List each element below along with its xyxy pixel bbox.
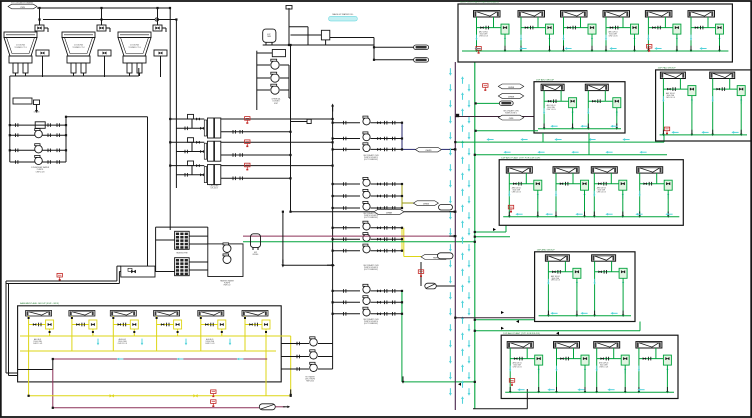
wire vertical x176 chiller feed — [175, 20, 177, 189]
wire box B drops — [542, 133, 544, 142]
wire group2 outlet — [401, 184, 403, 203]
wire PHE to pump box rows — [189, 235, 208, 237]
wire chiller CH-2 outlet top — [221, 141, 333, 143]
condenser water pump y150.3 — [35, 144, 43, 153]
wire vertical x170 chiller feed — [169, 8, 171, 230]
AHU 15/F AHU GROUP unit 1 — [541, 84, 564, 90]
wire vertical x66 — [65, 117, 67, 162]
tower inlet valve box V3 — [153, 7, 166, 32]
valves chiller CH-2 outlet — [233, 153, 235, 157]
wire chiller CH-3 outlet top — [221, 165, 333, 167]
svg-text:CHWS: CHWS — [425, 150, 432, 152]
svg-text:(DUTY/STANDBY): (DUTY/STANDBY) — [364, 158, 378, 161]
red tag in 12/F AHU PLANT (TYP. FOR 9/F-2/F) — [509, 379, 514, 386]
wire tower legs drop — [129, 73, 131, 76]
AHU 12/F AHU PLANT (TYP. FOR 9/F-2/F) unit 2 — [554, 342, 580, 348]
wire SCHWP-1 row y122.7 — [333, 122, 360, 124]
wire tower legs drop — [73, 73, 75, 76]
AHU 12/F AHU PLANT (TYP. FOR 9/F-2/F) unit 4 — [636, 342, 662, 348]
svg-text:CH-1/2/3: CH-1/2/3 — [210, 188, 217, 190]
wire double supply line — [6, 280, 117, 282]
AHU B-4 coil — [154, 311, 180, 317]
svg-text:8000 CMH: 8000 CMH — [513, 190, 520, 192]
wire vertical x289 top vent — [288, 8, 290, 45]
plate heat exchanger PHE-1 — [175, 231, 190, 249]
pipe labels right-mid — [498, 84, 524, 89]
wire black y212 to risers — [291, 211, 456, 213]
zone box 13/F AHU GROUP — [535, 252, 635, 322]
wire chiller CH-2 inlet bottom — [176, 151, 204, 153]
pump SCHWP-1 y138.5 — [363, 132, 370, 141]
valve ticks left — [16, 149, 18, 153]
wire green y103.4 to capsule — [476, 102, 500, 104]
heating pump HP-2 — [223, 254, 231, 264]
zone box ROOF FLOOR AHU / PAU SCHEMATIC — [458, 4, 732, 62]
svg-text:CHW 1.6 L/S: CHW 1.6 L/S — [608, 36, 617, 38]
pump SCHWP-2 y208 — [363, 201, 370, 210]
svg-text:RISER ZONE 2: RISER ZONE 2 — [505, 113, 517, 115]
svg-text:12000 CMH: 12000 CMH — [33, 341, 42, 343]
wire SCHWP-1 row y149.4 — [333, 148, 360, 150]
wire chiller header y116.8 — [66, 116, 148, 118]
AHU 13/F AHU GROUP unit 2 — [592, 255, 616, 261]
wire 12/F AHU PLANT (TYP. FOR 9/F-2/F) collector — [505, 391, 674, 393]
wire riser green x474.8 — [474, 62, 476, 409]
svg-text:(DUTY/STANDBY): (DUTY/STANDBY) — [364, 268, 378, 271]
wire 14/F AHU PLANT (TYP. FOR 14/F-10/F) collector — [503, 216, 679, 218]
cyan arrows ROOF FLOOR AHU / PAU SCHEMATIC collector — [474, 47, 481, 50]
flow capsule riser — [499, 101, 513, 105]
pipe label group3 — [421, 254, 450, 259]
wire PHE feed y227 — [156, 226, 208, 228]
svg-text:CHW 2.5 L/S: CHW 2.5 L/S — [118, 343, 127, 345]
tower sump box B2 — [98, 50, 111, 77]
red tag in 15/F PAU GROUP — [664, 127, 669, 134]
dosing pumps feed x256.8 — [256, 51, 258, 110]
cyan arrows basement box — [97, 339, 100, 346]
svg-text:DRAIN: DRAIN — [34, 111, 40, 114]
zone box 15/F PAU GROUP — [656, 70, 751, 141]
tower sump box B3 — [154, 50, 167, 77]
svg-text:CHW 1.6 L/S: CHW 1.6 L/S — [512, 192, 521, 194]
svg-text:HWP-1/2: HWP-1/2 — [224, 285, 231, 287]
AHU 15/F PAU GROUP unit 1 — [660, 72, 685, 78]
svg-text:HWS: HWS — [433, 258, 438, 260]
svg-text:HWP-4/5/6: HWP-4/5/6 — [306, 381, 314, 383]
valves chiller CH-1 outlet — [233, 130, 235, 134]
make-up assembly — [291, 30, 330, 45]
red tag in ROOF FLOOR AHU / PAU SCHEMATIC — [476, 47, 481, 54]
wire y26.7 horizontal — [289, 26, 308, 28]
wire SCHWP-1 row y138.5 — [333, 138, 360, 140]
zone box basement AHU — [18, 306, 282, 382]
valve ticks left — [16, 160, 18, 164]
calorifier pump row y369 — [281, 368, 309, 370]
calorifier pump CP-3 — [310, 362, 318, 371]
svg-text:CHW 1.6 L/S: CHW 1.6 L/S — [666, 97, 675, 99]
svg-text:(DUTY/STANDBY): (DUTY/STANDBY) — [364, 216, 378, 219]
wire green horizontal y155 — [475, 154, 667, 156]
AHU ROOF FLOOR AHU / PAU SCHEMATIC unit 3 — [561, 11, 588, 17]
cooling tower CT-2 — [62, 32, 95, 73]
wire green y128.7 to box B — [476, 130, 538, 132]
tower inlet valve box V2 — [97, 7, 110, 32]
AHU ROOF FLOOR AHU / PAU SCHEMATIC unit 6 — [688, 11, 715, 17]
wire x374 vertical — [373, 38, 375, 60]
wire elbow to drain box — [291, 121, 308, 123]
pump SCHWP-3 y250.7 — [363, 244, 370, 253]
svg-text:12/F AHU PLANT (TYP. FOR 9/F-2: 12/F AHU PLANT (TYP. FOR 9/F-2/F) — [503, 332, 540, 335]
AHU 13/F AHU GROUP unit 1 — [545, 255, 569, 261]
drain arrow x282.9 — [282, 212, 284, 263]
wire dark y317.7 to box E — [455, 317, 534, 319]
wire SCHWP-4 collector — [401, 291, 403, 314]
svg-text:MAKE-UP WATER FILL: MAKE-UP WATER FILL — [332, 13, 354, 16]
wire SCHWP-1 collector — [401, 123, 403, 150]
AHU 14/F AHU PLANT (TYP. FOR 14/F-10/F) unit 1 — [506, 167, 532, 173]
wire chiller CH-2 inlet top — [170, 141, 204, 143]
valves chiller CH-3 outlet — [233, 177, 235, 181]
dosing pump y78 — [257, 77, 270, 79]
svg-text:CHW 1.6 L/S: CHW 1.6 L/S — [597, 192, 606, 194]
wire SCHWP-2 row y196 — [333, 195, 360, 197]
svg-text:TO COOLING TOWERS: TO COOLING TOWERS — [11, 2, 33, 4]
valve ticks left — [16, 133, 18, 137]
svg-text:8000 CMH: 8000 CMH — [667, 95, 674, 97]
svg-text:ROOF FLOOR AHU / PAU SCHEMATIC: ROOF FLOOR AHU / PAU SCHEMATIC — [460, 1, 499, 4]
pipe label group1 — [415, 147, 441, 152]
valves SCHWP-1 y149.4 — [371, 148, 403, 150]
svg-text:CHW 1.6 L/S: CHW 1.6 L/S — [547, 109, 556, 111]
red tag heating — [57, 273, 62, 280]
svg-text:EXP: EXP — [254, 252, 257, 254]
valves SCHWP-2 y196 — [371, 195, 403, 197]
heating pump HP-1 — [223, 243, 231, 253]
air separator capsule 2 — [438, 253, 454, 259]
valves SCHWP-4 y290.9 — [371, 290, 403, 292]
svg-text:8000 CMH: 8000 CMH — [547, 107, 554, 109]
wire valve box to PHE — [155, 271, 175, 273]
wire chiller CH-1 outlet bottom — [221, 131, 291, 133]
AHU 14/F AHU PLANT (TYP. FOR 14/F-10/F) unit 3 — [591, 167, 617, 173]
wire chiller CH-1 inlet bottom — [176, 127, 204, 129]
wire yellow collector out to riser — [276, 335, 291, 337]
pump SCHWP-1 y122.7 — [363, 116, 370, 125]
svg-text:TOWER CT-1: TOWER CT-1 — [14, 47, 27, 49]
wire purple y236 from PHE — [243, 235, 455, 237]
red tag bottom 1 — [211, 390, 216, 397]
cyan arrows y142 y155 — [486, 138, 493, 141]
wire SCHWP-4 row y302.3 — [333, 301, 360, 303]
svg-text:8000 CMH: 8000 CMH — [600, 365, 607, 367]
svg-text:12000 CMH: 12000 CMH — [118, 341, 127, 343]
valves SCHWP-3 y239.2 — [371, 238, 403, 240]
air separator capsule 1 — [439, 205, 453, 211]
wire bottom right connections — [473, 408, 527, 410]
wire group4 outlet green — [401, 291, 403, 382]
wire dosing outlet — [288, 65, 290, 98]
svg-text:CHWR: CHWR — [508, 97, 515, 99]
wire group1 outlet — [401, 123, 403, 150]
wire group3 meter drop — [420, 262, 422, 286]
cyan arrows 15/F PAU GROUP collector — [671, 131, 678, 134]
condenser water pump y162 — [35, 155, 43, 164]
pipe label top-left — [8, 4, 37, 9]
cyan highlight label — [329, 16, 358, 21]
pump SCHWP-4 y290.9 — [363, 284, 370, 293]
dosing pump y65 — [257, 64, 270, 66]
red tag chiller CH-2 — [245, 140, 250, 147]
valves SCHWP-4 y302.3 — [371, 301, 403, 303]
valves SCHWP-1 y138.5 — [371, 138, 403, 140]
wire chiller CH-3 outlet bottom — [221, 177, 291, 179]
wire green y330.8 box E return — [475, 330, 640, 332]
valve yellow bottom 1 — [110, 394, 114, 397]
wire PHE feed vertical x155.6 — [155, 227, 157, 271]
red tag in 14/F AHU PLANT (TYP. FOR 14/F-10/F) — [508, 205, 513, 212]
AHU B-2 piping — [71, 316, 97, 351]
svg-text:CHWS: CHWS — [423, 204, 430, 206]
svg-text:12000 CMH: 12000 CMH — [206, 341, 215, 343]
svg-text:14/F AHU PLANT (TYP. FOR 14/F-: 14/F AHU PLANT (TYP. FOR 14/F-10/F) — [501, 156, 540, 159]
cyan arrows 14/F AHU PLANT (TYP. FOR 14/F-10/F) collector — [515, 213, 522, 216]
valves SCHWP-2 y208 — [371, 207, 403, 209]
red tag bottom 2 — [211, 400, 216, 407]
red tag group3 — [418, 270, 423, 277]
wire chiller CH-3 inlet top — [170, 165, 204, 167]
wire chiller CH-2 outlet bottom — [221, 154, 291, 156]
wire group3 outlet yellow — [403, 228, 405, 257]
wire vertical x290.5 — [290, 45, 292, 212]
wire 15/F AHU GROUP collector — [538, 128, 621, 130]
flow capsule FM-2 — [414, 58, 429, 63]
wire SCHWP-2 collector — [401, 184, 403, 208]
wire maroon return bottom y407.8 — [53, 407, 259, 409]
wire maroon return y359 — [53, 358, 267, 360]
svg-text:CHWR: CHWR — [386, 212, 393, 214]
wire vertical x332.6 pump feed — [332, 107, 334, 369]
svg-text:CHWS: CHWS — [508, 87, 515, 89]
wire cw line y150 — [10, 149, 66, 151]
zone box 12/F AHU PLANT (TYP. FOR 9/F-2/F) — [501, 335, 678, 398]
condenser water pump y135.2 — [35, 129, 43, 138]
pump SCHWP-3 y239.2 — [363, 233, 370, 242]
cyan arrows y232 — [488, 228, 496, 231]
chiller CH-1 motor valve — [185, 114, 204, 130]
svg-text:CWS: CWS — [509, 118, 514, 120]
calorifier pump CP-2 — [310, 350, 318, 359]
wire 13/F AHU GROUP collector — [539, 315, 631, 317]
wire maroon drop x52.8 — [52, 370, 54, 408]
svg-text:(DUTY/STANDBY): (DUTY/STANDBY) — [364, 322, 378, 325]
flow meter capsule group3 — [425, 283, 437, 289]
AHU B-3 piping — [112, 316, 138, 351]
pump SCHWP-3 y227.8 — [363, 221, 370, 230]
wire to flow capsule 1 — [374, 46, 414, 48]
svg-text:8000 CMH: 8000 CMH — [513, 365, 520, 367]
pump SCHWP-2 y196 — [363, 189, 370, 198]
wire SCHWP-2 row y208 — [333, 207, 360, 209]
heating control valve box — [121, 266, 155, 277]
flow capsule FM-1 — [414, 45, 429, 50]
cyan arrows y315 — [496, 311, 504, 314]
svg-text:VESSEL: VESSEL — [252, 254, 258, 256]
wire riser maroon x455.3 — [454, 62, 456, 410]
wire SCHWP-4 row y313.8 — [333, 313, 360, 315]
AHU 14/F AHU PLANT (TYP. FOR 14/F-10/F) unit 2 — [553, 167, 579, 173]
tower sump box B1 — [36, 50, 49, 77]
valves SCHWP-2 y184 — [371, 183, 403, 185]
wire cw line y162 — [10, 161, 66, 163]
chiller CH-1 — [204, 118, 221, 138]
valves SCHWP-4 y313.8 — [371, 313, 403, 315]
wire to flow capsule 2 — [374, 59, 414, 61]
expansion tank T1 — [263, 29, 276, 45]
pump SCHWP-1 y149.4 — [363, 143, 370, 152]
wire yellow supply bottom y395.8 — [28, 395, 291, 397]
AHU 15/F PAU GROUP unit 2 — [710, 72, 735, 78]
wire black heating stub — [18, 369, 53, 371]
cyan arrows 13/F AHU GROUP collector — [550, 312, 557, 315]
dosing pot — [272, 50, 285, 57]
heating pump box — [208, 244, 243, 277]
wire green y236.7 to box D — [475, 236, 510, 238]
svg-text:BASEMENT AHU GROUP (B1/F - B3/: BASEMENT AHU GROUP (B1/F - B3/F) — [20, 302, 59, 305]
red tag chiller CH-3 — [245, 163, 250, 170]
svg-text:CHW 2.5 L/S: CHW 2.5 L/S — [33, 343, 42, 345]
wire green y232 to box D — [475, 231, 506, 233]
pipe label y212 — [374, 209, 404, 214]
expansion vessel — [251, 234, 261, 256]
AHU B-3 coil — [110, 311, 136, 317]
chiller CH-3 — [204, 165, 221, 185]
wire dark y116.5 to box B — [455, 116, 534, 118]
svg-text:8000 CMH: 8000 CMH — [480, 34, 487, 36]
wire SCHWP-2 row y184 — [333, 183, 360, 185]
svg-text:15/F AHU GROUP: 15/F AHU GROUP — [536, 78, 555, 81]
zone box 15/F AHU GROUP — [534, 82, 625, 133]
zone box 14/F AHU PLANT (TYP. FOR 14/F-10/F) — [499, 160, 683, 226]
AHU B-5 coil — [198, 311, 224, 317]
wire tower legs drop — [15, 73, 17, 76]
wire SCHWP-3 collector — [401, 228, 403, 251]
pump SCHWP-4 y313.8 — [363, 307, 370, 316]
chiller CH-2 motor valve — [185, 138, 204, 154]
wire x308 vertical — [307, 27, 309, 45]
wire chiller CH-1 inlet top — [170, 118, 204, 120]
red tag chiller CH-1 — [245, 117, 250, 124]
wire chiller CH-3 inlet bottom — [176, 174, 204, 176]
wire top header y8 — [37, 7, 170, 9]
AHU 12/F AHU PLANT (TYP. FOR 9/F-2/F) unit 3 — [594, 342, 620, 348]
wire yellow collector y351 — [20, 350, 276, 352]
calorifier pump row y356.5 — [281, 356, 309, 358]
svg-text:CWS: CWS — [20, 7, 25, 9]
svg-text:13/F AHU GROUP: 13/F AHU GROUP — [537, 249, 556, 252]
strainer on line y125 — [35, 122, 45, 129]
wire yellow riser x290.7 — [290, 336, 292, 396]
calorifier pump row y343.5 — [281, 343, 309, 345]
svg-text:CIRC PUMPS: CIRC PUMPS — [305, 379, 315, 381]
drain assembly — [13, 98, 40, 114]
AHU B-1 coil — [26, 311, 52, 317]
cyan arrows risers — [449, 68, 452, 76]
wire y265 to pump feed — [283, 264, 333, 266]
wire green y241.8 from PHE — [243, 241, 475, 243]
wire SCHWP-4 row y290.9 — [333, 290, 360, 292]
valve yellow bottom 2 — [194, 394, 198, 397]
svg-text:TOWER CT-2: TOWER CT-2 — [72, 47, 85, 49]
chiller CH-3 motor valve — [185, 161, 204, 177]
wire SCHWP-3 row y250.7 — [333, 250, 360, 252]
wire yellow collector y336 — [20, 335, 276, 337]
svg-text:15/F PAU GROUP: 15/F PAU GROUP — [658, 67, 676, 70]
pump SCHWP-2 y184 — [363, 177, 370, 186]
svg-text:CHW 1.6 L/S: CHW 1.6 L/S — [479, 36, 488, 38]
svg-text:8000 CMH: 8000 CMH — [609, 34, 616, 36]
wire 15/F PAU GROUP collector — [660, 134, 747, 136]
wire vertical x147.5 — [147, 117, 149, 266]
chiller CH-2 — [204, 141, 221, 161]
svg-text:CHW 1.6 L/S: CHW 1.6 L/S — [599, 367, 608, 369]
cyan arrows 12/F AHU PLANT (TYP. FOR 9/F-2/F) collector — [517, 388, 524, 391]
AHU ROOF FLOOR AHU / PAU SCHEMATIC unit 1 — [474, 11, 501, 17]
AHU 14/F AHU PLANT (TYP. FOR 14/F-10/F) unit 4 — [637, 167, 663, 173]
cooling tower CT-3 — [118, 32, 151, 73]
svg-text:HEATING PHE: HEATING PHE — [176, 252, 188, 255]
svg-text:CHW 1.6 L/S: CHW 1.6 L/S — [551, 280, 560, 282]
AHU 12/F AHU PLANT (TYP. FOR 9/F-2/F) unit 1 — [507, 342, 533, 348]
plate heat exchanger PHE-2 — [175, 258, 190, 276]
AHU B-2 coil — [69, 311, 95, 317]
flow capsule bottom — [259, 404, 275, 410]
valves SCHWP-3 y250.7 — [371, 250, 403, 252]
junction dots — [169, 118, 171, 120]
svg-text:CWP-1/2/3: CWP-1/2/3 — [36, 171, 45, 173]
AHU B-6 coil — [242, 311, 268, 317]
pump SCHWP-4 y302.3 — [363, 296, 370, 305]
wire green y319.8 — [475, 319, 535, 321]
valve ticks left — [16, 123, 18, 127]
wire condenser header y76 — [10, 75, 139, 77]
AHU ROOF FLOOR AHU / PAU SCHEMATIC unit 4 — [603, 11, 630, 17]
svg-text:8000 CMH: 8000 CMH — [598, 190, 605, 192]
AHU 15/F AHU GROUP unit 2 — [585, 84, 608, 90]
wire y45 horizontal — [263, 44, 374, 46]
dosing pump y90 — [257, 89, 270, 91]
wire green horizontal y142 — [455, 141, 664, 143]
wire SCHWP-3 row y227.8 — [333, 227, 360, 229]
wire ROOF FLOOR AHU / PAU SCHEMATIC collector — [462, 50, 728, 52]
AHU B-4 piping — [156, 316, 182, 351]
cyan arrows 15/F AHU GROUP collector — [550, 125, 557, 128]
wire double supply drop left — [5, 281, 7, 373]
valves SCHWP-1 y122.7 — [371, 122, 403, 124]
wire cw line y125 — [10, 124, 66, 126]
AHU B-1 piping — [28, 316, 54, 396]
tower inlet valve box V1 — [35, 7, 48, 32]
valves SCHWP-3 y227.8 — [371, 227, 403, 229]
wire SCHWP-3 row y239.2 — [333, 238, 360, 240]
AHU ROOF FLOOR AHU / PAU SCHEMATIC unit 2 — [518, 11, 545, 17]
red tag in ROOF FLOOR AHU / PAU SCHEMATIC — [647, 45, 652, 52]
wire left riser x9 — [9, 76, 11, 162]
svg-text:CHW 2.5 L/S: CHW 2.5 L/S — [205, 343, 214, 345]
svg-text:CHW 1.6 L/S: CHW 1.6 L/S — [513, 367, 522, 369]
AHU B-5 piping — [200, 316, 226, 351]
AHU ROOF FLOOR AHU / PAU SCHEMATIC unit 5 — [645, 11, 672, 17]
red tag riser y83 — [483, 84, 488, 91]
